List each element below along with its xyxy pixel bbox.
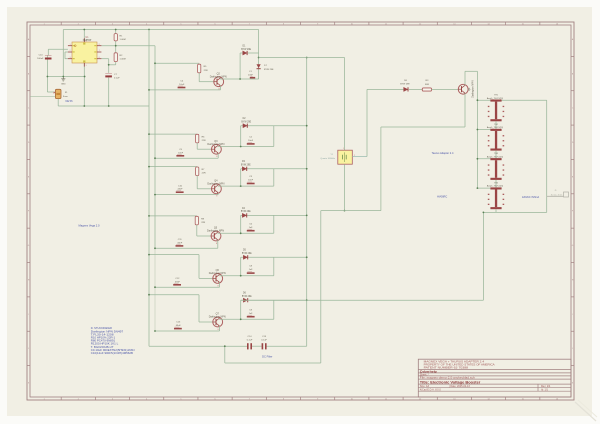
svg-text:Title: Electronic Voltage Boos: Title: Electronic Voltage Booster: [420, 380, 481, 384]
diode D7 BYW 29E: [257, 64, 261, 68]
capacitor C5 10nF: [176, 155, 184, 157]
svg-text:1.00M: 1.00M: [120, 39, 126, 41]
ground symbol GND: [62, 77, 64, 79]
wire fuse to frame edge: [30, 96, 55, 98]
svg-text:7: 7: [249, 399, 250, 401]
wire U1 pin7 to stage rail: [101, 45, 155, 47]
capacitor C14 0.1uF: [247, 343, 249, 349]
wire stage 4 collector line: [218, 232, 274, 234]
svg-text:22R: 22R: [202, 173, 206, 175]
crystal Y1 Quartz 100kHz: [338, 150, 353, 164]
wire stage 3 collector line: [218, 185, 274, 187]
wire ladder bottom link: [483, 211, 546, 213]
wire stage 6 collector line: [219, 318, 274, 320]
capacitor C9 1nF: [247, 316, 255, 318]
resistor R2: [114, 53, 117, 62]
capacitor C13 43nF: [174, 328, 182, 330]
svg-text:AnyG_75VCZ(3): AnyG_75VCZ(3): [487, 185, 503, 188]
sheet border frame inner: [30, 25, 571, 397]
svg-text:43nF: 43nF: [175, 281, 181, 283]
svg-text:14: 14: [488, 399, 490, 401]
svg-text:10nF: 10nF: [178, 152, 184, 154]
svg-text:File: magnex-demo-2.0-anykeybl: File: magnex-demo-2.0-anykeyblad.sch: [420, 377, 476, 380]
wire stage 1 emitter: [220, 86, 222, 90]
wire oscillator node to crystal: [259, 57, 345, 59]
svg-text:AnyG_75VCZ(3): AnyG_75VCZ(3): [487, 126, 503, 129]
svg-text:10nF: 10nF: [179, 84, 185, 86]
svg-text:AnyG_75VCZ(3): AnyG_75VCZ(3): [487, 155, 503, 158]
svg-text:BYW 29E: BYW 29E: [400, 84, 410, 86]
svg-text:43nF: 43nF: [177, 242, 183, 244]
wire R3 to Q1 base: [432, 88, 459, 90]
svg-text:BYW 29E: BYW 29E: [264, 69, 274, 71]
svg-text:1: 1: [44, 399, 45, 401]
wire U1 pin3 to C7: [101, 58, 108, 60]
svg-text:HV06RC: HV06RC: [437, 194, 447, 198]
svg-text:Quartz 100kHz: Quartz 100kHz: [320, 157, 335, 160]
wire bottom return rail: [58, 105, 149, 107]
svg-text:5: 5: [180, 24, 181, 26]
svg-text:12: 12: [419, 399, 421, 401]
svg-text:6: 6: [215, 24, 216, 26]
wire R1 bottom to R2 top: [115, 41, 117, 53]
svg-text:NE 56: NE 56: [66, 100, 74, 103]
wire stage 4 top feed: [149, 215, 197, 217]
svg-text:Darlington NPN: Darlington NPN: [207, 182, 224, 185]
svg-text:11: 11: [385, 399, 387, 401]
wire lower return loop: [321, 210, 381, 212]
wire to connector: [547, 195, 564, 197]
connector J1 output: [564, 192, 569, 197]
wire R8 bottom to base: [196, 225, 198, 236]
wire stage 3 emitter: [217, 193, 219, 195]
svg-text:1nF: 1nF: [249, 227, 253, 229]
frame row ticks and letters: [27, 55, 30, 57]
svg-text:13: 13: [453, 24, 455, 26]
svg-text:Screw_Term: Screw_Term: [551, 193, 563, 196]
svg-text:BYW 29E: BYW 29E: [242, 253, 252, 255]
transistor Q2 Darlington NPN: [214, 77, 224, 87]
wire ladder stage 3 bottom stub: [495, 180, 497, 188]
svg-text:8: 8: [283, 24, 284, 26]
transistor Q1 Darlington NPN: [458, 84, 468, 94]
wire R2 bottom to C7 node: [115, 62, 117, 65]
svg-text:43nF: 43nF: [176, 325, 182, 327]
transistor Q4 Darlington NPN: [212, 184, 222, 194]
capacitor C15 0.1uF: [262, 343, 264, 349]
wire ladder stage 4 bottom stub: [495, 209, 497, 212]
svg-text:1: 1: [44, 24, 45, 26]
capacitor C2 10nF: [247, 143, 255, 145]
wire stage 6 top feed: [149, 294, 199, 296]
wire stage 1 collector line: [220, 78, 258, 80]
svg-text:2: 2: [78, 399, 79, 401]
wire stage 2 top feed: [149, 133, 197, 135]
svg-text:5: 5: [180, 399, 181, 401]
svg-text:1.00M: 1.00M: [120, 59, 126, 61]
wire D2 loop right riser: [273, 126, 275, 147]
wire to fuse: [46, 77, 48, 93]
wire ladder stage 2 bottom stub: [495, 151, 497, 159]
wire ladder right rail: [546, 100, 548, 212]
transistor Q3 Darlington NPN: [212, 144, 222, 154]
wire D6 loop left riser: [240, 300, 242, 319]
wire rail A: [148, 30, 150, 347]
svg-text:BYW 29E: BYW 29E: [241, 49, 251, 51]
resistor R1: [114, 34, 117, 41]
capacitor C4 10nF: [178, 87, 186, 89]
wire U1 pin2-pin6 bridge: [65, 51, 68, 53]
wire diode D1 output: [240, 52, 259, 54]
diode D4 BYW 29E: [242, 213, 246, 217]
wire left drop to ground rail: [62, 30, 64, 77]
resistor R3 56R: [422, 88, 431, 91]
svg-text:Darlington NPN: Darlington NPN: [209, 272, 226, 275]
transistor Q6 Darlington NPN: [213, 274, 223, 284]
svg-text:3: 3: [112, 399, 113, 401]
svg-text:10nF: 10nF: [248, 75, 254, 77]
wire R7 bottom to base: [196, 176, 198, 189]
wire U1 ground pin: [83, 63, 85, 106]
svg-text:12: 12: [419, 24, 421, 26]
svg-text:43nF: 43nF: [178, 189, 184, 191]
svg-text:BYW 29E: BYW 29E: [241, 211, 251, 213]
title block: [418, 359, 571, 397]
wire C10 top link to U1: [47, 49, 49, 55]
wire rail C: [306, 58, 308, 347]
wire D4 loop right riser: [273, 215, 275, 233]
wire D4 loop left riser: [240, 215, 242, 233]
wire stage 5 emitter: [219, 282, 221, 287]
wire top rail: [63, 29, 258, 31]
svg-text:KiCad E.D.A. 8.0.0: KiCad E.D.A. 8.0.0: [420, 389, 442, 392]
svg-text:1: 1: [343, 148, 344, 150]
svg-text:0.1uF: 0.1uF: [114, 78, 120, 80]
resistor R6 22R: [196, 134, 199, 143]
wire D1 branch riser: [239, 53, 241, 79]
svg-text:7: 7: [249, 24, 250, 26]
wire stage 6 emitter: [219, 326, 221, 331]
resistor R7 22R: [196, 167, 199, 176]
svg-text:GND: GND: [61, 83, 66, 85]
transistor Q5 Darlington NPN: [211, 231, 221, 241]
capacitor C1 10nF: [250, 77, 255, 79]
capacitor C12 43nF: [173, 284, 181, 286]
wire ladder stage 3 top: [477, 158, 496, 160]
capacitor C7: [105, 72, 112, 75]
svg-text:15: 15: [522, 399, 524, 401]
transistor Q7 Darlington NPN: [213, 317, 223, 327]
svg-text:C10(12uF 900F5(1O4H)4M562B: C10(12uF 900F5(1O4H)4M562B: [91, 352, 133, 355]
wire stage 1 top feed: [155, 62, 199, 64]
svg-text:| Date: 2025-02-13: | Date: 2025-02-13: [449, 385, 470, 388]
wire diode D6 output: [241, 299, 307, 301]
wire D3 loop right riser: [273, 169, 275, 186]
svg-text:14: 14: [488, 24, 490, 26]
wire ladder stage 4 top: [477, 187, 496, 189]
svg-text:BYW 29E: BYW 29E: [242, 296, 252, 298]
wire D5 loop right riser: [273, 257, 275, 275]
svg-text:10: 10: [351, 399, 353, 401]
wire Q1 emitter return: [464, 93, 466, 127]
svg-text:11: 11: [385, 24, 387, 26]
svg-text:10nF: 10nF: [248, 140, 254, 142]
svg-text:100nF: 100nF: [37, 58, 44, 60]
wire diode D2 output: [241, 125, 307, 127]
svg-text:3: 3: [112, 24, 113, 26]
wire ladder stage 1 bottom stub: [495, 121, 497, 129]
svg-text:Darlington NPN: Darlington NPN: [471, 80, 474, 98]
svg-text:15: 15: [522, 24, 524, 26]
diode D8 BYW 29E: [404, 87, 408, 91]
svg-text:Darlington NPN: Darlington NPN: [207, 143, 224, 146]
svg-text:0.1uF: 0.1uF: [261, 340, 267, 342]
wire D3 loop left riser: [240, 169, 242, 186]
wire D5 loop left riser: [240, 257, 242, 275]
page curl shading bottom-right: [575, 402, 596, 421]
wire rail B lower faint: [154, 248, 156, 331]
wire diode D5 output: [241, 256, 307, 258]
svg-text:9: 9: [317, 24, 318, 26]
wire bottom filter rail: [149, 345, 247, 347]
svg-text:0.1uF: 0.1uF: [247, 340, 253, 342]
svg-text:16: 16: [556, 24, 558, 26]
svg-text:9: 9: [317, 399, 318, 401]
wire stage 2 emitter: [217, 153, 219, 158]
svg-text:Magnex Vega 2.0: Magnex Vega 2.0: [79, 224, 100, 228]
capacitor C8 1nF: [247, 272, 255, 274]
frame column ticks and numbers: [60, 22, 62, 25]
fuse F1: [55, 89, 61, 98]
svg-text:22R: 22R: [202, 140, 206, 142]
wire crystal bottom: [344, 164, 346, 210]
wire rail B: [154, 46, 156, 249]
svg-text:10nF: 10nF: [248, 180, 254, 182]
svg-text:22R: 22R: [204, 70, 208, 72]
wire D8 to R3: [409, 88, 423, 90]
svg-text:BYW 29E: BYW 29E: [241, 122, 251, 124]
svg-text:120VAC 3V6mA: 120VAC 3V6mA: [522, 196, 540, 199]
wire stage 4 emitter: [217, 240, 219, 248]
svg-text:16: 16: [556, 399, 558, 401]
wire diode D3 output: [241, 168, 307, 170]
wire stage 3 top feed: [149, 166, 197, 168]
svg-text:AnyG_75VCZ(3): AnyG_75VCZ(3): [487, 97, 503, 100]
svg-text:1nF: 1nF: [249, 313, 253, 315]
svg-text:Darlington NPN: Darlington NPN: [209, 316, 226, 319]
resistor R5 22R: [198, 64, 201, 73]
wire stage 2 collector line: [218, 146, 274, 148]
wire stage 5 collector line: [219, 275, 274, 277]
svg-text:NE555P: NE555P: [83, 40, 92, 42]
wire HV output bottom run: [241, 299, 484, 301]
wire stage 5 top feed: [149, 254, 199, 256]
capacitor C11 43nF: [176, 245, 184, 247]
svg-text:4: 4: [146, 399, 147, 401]
svg-text:13: 13: [453, 399, 455, 401]
wire C7 bottom: [108, 78, 110, 106]
svg-text:Id: 1/1: Id: 1/1: [541, 389, 549, 392]
wire ground rail: [47, 76, 84, 78]
svg-text:DC Filter: DC Filter: [262, 355, 272, 359]
wire crystal to D8 branch: [352, 156, 367, 158]
wire R6 bottom to base: [196, 143, 198, 149]
diode D3 BYW 29E: [242, 167, 246, 171]
svg-text:BYW 29E: BYW 29E: [241, 165, 251, 167]
svg-text:2: 2: [78, 24, 79, 26]
diode D5 BYW 29E: [243, 255, 247, 259]
diode D1 BYW 29E: [243, 51, 247, 55]
svg-text:8: 8: [283, 399, 284, 401]
wire U1 vcc pin: [83, 30, 85, 43]
svg-text:4: 4: [146, 24, 147, 26]
capacitor C10 43nF: [176, 191, 184, 193]
wire D6 loop right riser: [273, 300, 275, 319]
svg-text:Taurus Adapter 2.4: Taurus Adapter 2.4: [432, 151, 454, 155]
capacitor C3 10nF: [247, 183, 255, 185]
svg-text:Darlington NPN: Darlington NPN: [210, 75, 227, 78]
wire ladder output drop: [482, 212, 484, 300]
wire ladder stage 1 top: [477, 99, 546, 101]
wire node rail D1-D7: [258, 30, 260, 80]
wire R5 bottom to base: [198, 73, 200, 82]
wire ladder stage 2 top: [477, 129, 496, 131]
diode D2 BYW 29E: [243, 124, 247, 128]
svg-text:Darlington NPN: Darlington NPN: [207, 230, 224, 233]
capacitor C6 1nF: [247, 230, 255, 232]
svg-text:1nF: 1nF: [249, 269, 253, 271]
wire diode D4 output: [241, 214, 307, 216]
svg-text:J: J: [572, 348, 573, 350]
wire fuse bottom: [57, 99, 59, 106]
svg-text:10: 10: [351, 24, 353, 26]
capacitor C10: [45, 54, 52, 57]
wire C10 to ground rail: [46, 55, 48, 77]
wire R1 top: [115, 30, 117, 34]
svg-text:56R: 56R: [425, 84, 429, 86]
svg-text:J: J: [28, 348, 29, 350]
svg-text:Fuse: Fuse: [63, 96, 69, 98]
wire D2 loop left riser: [240, 126, 242, 147]
wire Q1 collector to ladder rail: [464, 71, 466, 85]
junction dots oscillator: [83, 29, 85, 31]
svg-text:22R: 22R: [201, 222, 205, 224]
svg-text:6: 6: [215, 399, 216, 401]
ic U1 NE555P: [72, 42, 97, 63]
wire to diode D8: [367, 88, 404, 90]
diode D6 BYW 29E: [243, 298, 247, 302]
resistor R8 22R: [195, 216, 198, 225]
